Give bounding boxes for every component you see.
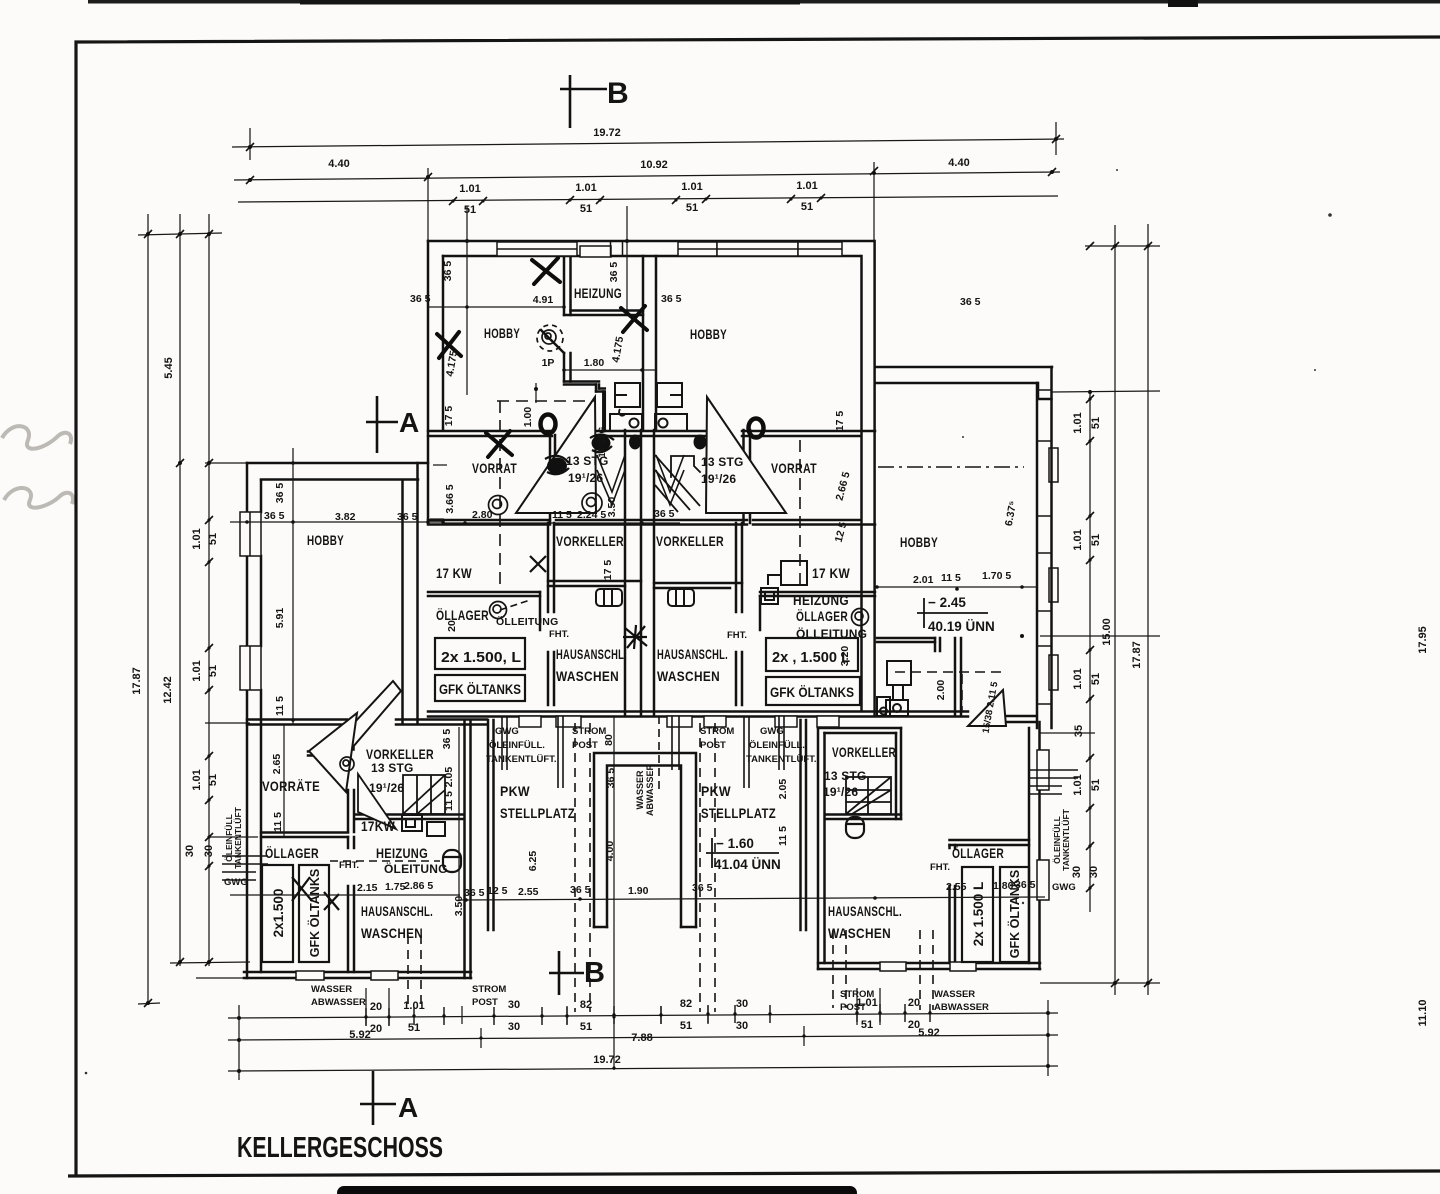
svg-text:2.86 5: 2.86 5 xyxy=(404,880,433,892)
svg-text:36 5: 36 5 xyxy=(264,510,285,522)
HOBBY left bottom step walls xyxy=(564,353,571,382)
svg-text:VORRAT: VORRAT xyxy=(472,460,517,476)
dashed boundary above VORRAT left xyxy=(497,400,595,402)
svg-text:WASSER: WASSER xyxy=(934,989,975,1000)
svg-text:HOBBY: HOBBY xyxy=(484,325,520,341)
svg-text:STROM: STROM xyxy=(700,726,734,737)
svg-text:51: 51 xyxy=(464,204,476,216)
VORKELLER top walls y520/524.5 xyxy=(428,519,860,522)
section marker A top xyxy=(366,396,398,453)
svg-text:17 KW: 17 KW xyxy=(812,565,850,581)
left margin service lines xyxy=(222,856,268,880)
party wall verticals xyxy=(624,430,627,716)
right stair winder step xyxy=(671,456,700,477)
vertical dim x467 xyxy=(466,206,468,395)
svg-text:51: 51 xyxy=(1090,417,1102,429)
svg-text:36 5: 36 5 xyxy=(397,511,418,523)
top dimension line 4.40/10.92/4.40 xyxy=(234,172,1060,180)
svg-text:36 5: 36 5 xyxy=(692,882,713,894)
svg-text:ÖLLAGER: ÖLLAGER xyxy=(952,845,1004,861)
VORKELLER bottom walls y581/586 xyxy=(548,581,742,583)
svg-text:51: 51 xyxy=(1090,534,1102,546)
bottom-right vertical tank boxes xyxy=(962,867,1029,962)
svg-text:12 5: 12 5 xyxy=(487,885,508,897)
bl vertical dim x459 xyxy=(458,727,460,900)
svg-text:GWG: GWG xyxy=(760,726,784,737)
top dim labels xyxy=(328,127,969,216)
svg-text:13 STG: 13 STG xyxy=(597,426,607,457)
top wall xyxy=(875,366,1052,369)
svg-text:30: 30 xyxy=(736,1020,748,1032)
right unit heater 17KW xyxy=(761,561,807,604)
svg-text:30: 30 xyxy=(203,845,215,857)
vertical dim x536 xyxy=(535,383,537,403)
svg-text:3.66 5: 3.66 5 xyxy=(444,484,456,513)
left dim ticks xyxy=(144,230,213,1007)
svg-text:36 5: 36 5 xyxy=(274,483,286,504)
svg-text:VORKELLER: VORKELLER xyxy=(556,533,624,549)
top wall windows xyxy=(497,242,842,257)
svg-text:51: 51 xyxy=(861,1019,873,1031)
bl dim line y893 xyxy=(230,894,460,896)
svg-text:ÖLEINFÜLL.: ÖLEINFÜLL. xyxy=(749,740,805,751)
svg-text:5.92: 5.92 xyxy=(349,1029,370,1041)
svg-text:TANKENTLÜFT: TANKENTLÜFT xyxy=(1061,808,1071,870)
svg-text:WASCHEN: WASCHEN xyxy=(361,925,423,941)
svg-text:TANKENTLÜFT.: TANKENTLÜFT. xyxy=(486,754,557,765)
svg-text:POST: POST xyxy=(840,1002,866,1013)
svg-text:ÖLEITUNG: ÖLEITUNG xyxy=(384,861,448,876)
svg-text:1.01: 1.01 xyxy=(1072,412,1084,433)
section marker B top xyxy=(560,75,607,128)
svg-text:51: 51 xyxy=(207,665,219,677)
stair jambs left unit xyxy=(550,435,555,523)
HOBBY far-right stair wedge xyxy=(0,0,1135,1)
top dim ticks xyxy=(246,135,1060,205)
svg-text:HAUSANSCHL.: HAUSANSCHL. xyxy=(828,903,902,919)
svg-text:20: 20 xyxy=(446,620,458,632)
svg-text:20: 20 xyxy=(370,1001,382,1013)
far-right top corner return xyxy=(1038,383,1052,399)
svg-text:36 5: 36 5 xyxy=(608,262,620,283)
extension lines from plan to left dims xyxy=(205,462,250,464)
thick O ring right xyxy=(749,419,764,438)
svg-text:HOBBY: HOBBY xyxy=(307,532,344,548)
svg-text:11 5: 11 5 xyxy=(552,509,572,521)
right unit sink block xyxy=(655,383,687,431)
VORRAETE right wall lower xyxy=(348,790,354,832)
right VORKELLER corner stairs xyxy=(655,455,700,512)
svg-text:2.80: 2.80 xyxy=(472,509,493,521)
svg-text:51: 51 xyxy=(801,201,813,213)
svg-text:17 5: 17 5 xyxy=(443,406,455,427)
svg-text:POST: POST xyxy=(700,740,726,751)
svg-text:1.01: 1.01 xyxy=(796,180,817,192)
svg-text:36 5: 36 5 xyxy=(570,884,591,896)
vertical dim x293 far-left xyxy=(292,448,294,725)
svg-text:ÖLEINFÜLL.: ÖLEINFÜLL. xyxy=(489,740,545,751)
svg-text:36 5: 36 5 xyxy=(464,887,485,899)
svg-text:WASSER: WASSER xyxy=(311,984,352,995)
dashed nook far-right xyxy=(895,671,1005,673)
svg-text:13 STG: 13 STG xyxy=(701,455,744,469)
svg-text:5.91: 5.91 xyxy=(274,608,286,629)
right wall of far-left hobby xyxy=(403,463,418,724)
left unit stair chevrons xyxy=(597,455,684,505)
svg-text:HAUSANSCHL.: HAUSANSCHL. xyxy=(361,903,433,919)
svg-text:15.00: 15.00 xyxy=(1101,618,1113,646)
svg-text:ÖLLEITUNG: ÖLLEITUNG xyxy=(496,615,558,628)
svg-text:20: 20 xyxy=(370,1023,382,1035)
svg-text:5.45: 5.45 xyxy=(163,357,175,378)
svg-text:HEIZUNG: HEIZUNG xyxy=(574,285,622,301)
bl block boiler rounded xyxy=(443,850,461,872)
svg-text:KELLERGESCHOSS: KELLERGESCHOSS xyxy=(237,1132,443,1164)
ollager right-central walls xyxy=(760,592,875,596)
VORKELLER radiators xyxy=(596,589,694,606)
construction X marks xyxy=(437,258,647,457)
svg-text:GWG: GWG xyxy=(1052,882,1076,893)
VORKELLER-bl door jamb xyxy=(347,727,354,750)
svg-text:40.19 ÜNN: 40.19 ÜNN xyxy=(928,619,995,634)
svg-text:STROM: STROM xyxy=(472,984,506,995)
far-left block bottom wall xyxy=(244,971,471,974)
svg-text:17.87: 17.87 xyxy=(131,667,143,695)
svg-text:1.01: 1.01 xyxy=(1072,529,1084,550)
far-right wall window dividers xyxy=(1037,390,1058,704)
svg-text:51: 51 xyxy=(1090,673,1102,685)
svg-text:1.01: 1.01 xyxy=(575,182,596,194)
svg-text:1P: 1P xyxy=(542,357,555,369)
service riser short lines under central wall xyxy=(222,716,1078,880)
svg-text:1.90: 1.90 xyxy=(628,885,649,897)
PKW stellplatz retaining walls xyxy=(488,720,806,930)
svg-text:19.72: 19.72 xyxy=(593,1054,621,1066)
svg-text:B: B xyxy=(584,957,605,989)
svg-text:GFK ÖLTANKS: GFK ÖLTANKS xyxy=(439,682,521,697)
left vertical dimension lines xyxy=(138,214,258,1005)
svg-text:POST: POST xyxy=(472,997,498,1008)
svg-text:51: 51 xyxy=(680,1020,692,1032)
svg-text:2.24 5: 2.24 5 xyxy=(577,509,606,521)
svg-text:3.82: 3.82 xyxy=(335,511,356,523)
svg-text:17KW: 17KW xyxy=(361,818,395,834)
svg-text:FHT.: FHT. xyxy=(727,630,747,641)
svg-text:6.37⁵: 6.37⁵ xyxy=(1003,500,1019,527)
2.01 dim far-right xyxy=(877,586,1037,588)
svg-text:51: 51 xyxy=(207,533,219,545)
svg-text:30: 30 xyxy=(184,845,196,857)
central block top wall inner xyxy=(443,255,860,258)
svg-text:11 5: 11 5 xyxy=(274,696,286,716)
pkw dim line y900 xyxy=(460,897,1045,900)
bottom-left second flight triangle xyxy=(358,774,396,829)
far-left block xyxy=(244,463,487,978)
scribble over bl tanks xyxy=(292,877,339,910)
svg-text:11 5: 11 5 xyxy=(941,572,961,584)
HAUSANSCHL-bl left wall xyxy=(348,837,354,972)
svg-text:35: 35 xyxy=(1073,725,1085,737)
svg-text:GFK ÖLTANKS: GFK ÖLTANKS xyxy=(770,685,854,700)
outer walls xyxy=(246,463,249,978)
faint right margin numbers xyxy=(1417,626,1429,1026)
svg-text:36 5: 36 5 xyxy=(654,508,675,520)
svg-text:ÖLLEITUNG: ÖLLEITUNG xyxy=(796,626,867,641)
far-left wall windows xyxy=(240,512,398,980)
svg-text:HEIZUNG: HEIZUNG xyxy=(793,592,849,608)
svg-text:51: 51 xyxy=(1090,779,1102,791)
svg-text:HAUSANSCHL.: HAUSANSCHL. xyxy=(657,646,728,662)
svg-text:17 KW: 17 KW xyxy=(436,565,472,581)
svg-text:A: A xyxy=(399,407,419,438)
svg-text:11 5: 11 5 xyxy=(443,791,455,811)
bottom-left block stair plan xyxy=(403,775,445,814)
interior: washing nook xyxy=(877,638,935,642)
svg-text:36 5: 36 5 xyxy=(960,296,981,308)
svg-text:HEIZUNG: HEIZUNG xyxy=(376,845,428,861)
left unit sink block xyxy=(610,383,642,431)
svg-text:− 2.45: − 2.45 xyxy=(928,595,966,610)
svg-text:3.50: 3.50 xyxy=(606,497,618,518)
svg-text:GFK ÖLTANKS: GFK ÖLTANKS xyxy=(307,869,322,957)
right unit washing machine xyxy=(886,661,911,716)
svg-text:11.10: 11.10 xyxy=(1417,1000,1429,1027)
left-central tank boxes xyxy=(435,638,525,701)
svg-text:20: 20 xyxy=(908,997,920,1009)
svg-text:ÖLLAGER: ÖLLAGER xyxy=(436,607,489,623)
speckles xyxy=(85,169,1332,1074)
HEIZUNG room walls xyxy=(564,257,571,315)
svg-text:11 5: 11 5 xyxy=(272,812,284,832)
svg-text:STELLPLATZ: STELLPLATZ xyxy=(500,805,575,821)
svg-text:4.175: 4.175 xyxy=(444,349,460,377)
svg-text:HOBBY: HOBBY xyxy=(900,534,938,550)
bottom-left stair arrow xyxy=(341,681,401,748)
svg-text:GWG: GWG xyxy=(224,877,248,888)
svg-text:HOBBY: HOBBY xyxy=(690,326,727,342)
top dimension line 1.01/51 row xyxy=(238,196,1058,202)
left dim labels (rotated) xyxy=(131,357,219,857)
svg-text:TANKENTLÜFT: TANKENTLÜFT xyxy=(233,806,243,868)
svg-text:2x1.500: 2x1.500 xyxy=(271,889,286,938)
svg-text:WASSER: WASSER xyxy=(635,770,645,810)
svg-text:ABWASSER: ABWASSER xyxy=(934,1002,989,1013)
bottom rounded black bar xyxy=(337,1186,857,1194)
svg-text:VORKELLER: VORKELLER xyxy=(832,744,896,760)
svg-text:7.88: 7.88 xyxy=(631,1032,652,1044)
strom post dashed verticals xyxy=(574,723,576,1012)
svg-text:ÖLLAGER: ÖLLAGER xyxy=(265,845,319,861)
svg-text:1.70 5: 1.70 5 xyxy=(982,570,1011,582)
svg-text:36 5: 36 5 xyxy=(605,768,617,789)
vertical dim x627 xyxy=(626,206,628,310)
svg-text:1.01: 1.01 xyxy=(459,183,480,195)
svg-text:1.01: 1.01 xyxy=(191,528,203,549)
svg-text:13 STG: 13 STG xyxy=(824,769,867,783)
central block HAUSANSCHL side walls xyxy=(548,523,554,705)
svg-text:51: 51 xyxy=(580,203,592,215)
svg-text:STELLPLATZ: STELLPLATZ xyxy=(701,805,776,821)
far-right block bottom xyxy=(1006,716,1035,722)
ollager left-central walls xyxy=(428,592,540,596)
svg-text:ABWASSER: ABWASSER xyxy=(645,764,655,817)
vertical dim x284 xyxy=(283,725,285,837)
dash-dot overhang far-right xyxy=(878,466,1024,468)
svg-text:1.01: 1.01 xyxy=(191,660,203,681)
svg-text:1.01: 1.01 xyxy=(191,769,203,790)
svg-text:36 5: 36 5 xyxy=(441,729,453,750)
svg-text:12.42: 12.42 xyxy=(162,676,174,704)
svg-text:36 5: 36 5 xyxy=(1015,879,1036,891)
svg-text:82: 82 xyxy=(680,998,692,1010)
svg-text:2x 1.500, L: 2x 1.500, L xyxy=(441,649,521,666)
svg-text:TANKENTLÜFT.: TANKENTLÜFT. xyxy=(746,754,817,765)
left unit big stair arrow xyxy=(516,397,596,513)
3.82 dim left xyxy=(230,521,443,523)
ink blobs xyxy=(547,435,707,475)
central block bottom wall xyxy=(428,710,968,713)
bottom-right block stair plan xyxy=(846,777,891,814)
right-central tank boxes xyxy=(766,638,860,705)
interior dimension thin lines xyxy=(230,206,1045,900)
1.80 dim xyxy=(564,369,656,371)
right margin service lines xyxy=(1029,770,1078,794)
svg-text:4.40: 4.40 xyxy=(948,157,969,169)
svg-text:2.66 5: 2.66 5 xyxy=(834,470,853,501)
svg-text:WASCHEN: WASCHEN xyxy=(556,668,619,684)
svg-text:1.80: 1.80 xyxy=(993,880,1014,892)
svg-text:80: 80 xyxy=(603,734,615,746)
svg-text:3.20: 3.20 xyxy=(839,646,851,667)
svg-text:A: A xyxy=(398,1092,418,1123)
svg-text:2.01: 2.01 xyxy=(913,574,934,586)
svg-text:30: 30 xyxy=(1071,866,1083,878)
svg-text:FHT.: FHT. xyxy=(930,862,950,873)
top page edge line xyxy=(88,0,1440,4)
svg-text:ÖLLAGER: ÖLLAGER xyxy=(796,608,848,624)
VORRATE/OLLAGER divider xyxy=(261,833,348,838)
svg-text:VORKELLER: VORKELLER xyxy=(656,533,724,549)
thin spirals xyxy=(340,325,869,771)
svg-text:1.75: 1.75 xyxy=(385,881,406,893)
br wasser dashed xyxy=(919,930,921,1010)
central block right wall xyxy=(873,241,876,716)
br block boiler rounded xyxy=(846,817,864,838)
svg-text:51: 51 xyxy=(207,774,219,786)
svg-text:VORRAT: VORRAT xyxy=(771,460,817,476)
svg-text:VORRÄTE: VORRÄTE xyxy=(262,778,320,794)
svg-text:51: 51 xyxy=(686,202,698,214)
svg-text:2.05: 2.05 xyxy=(777,779,789,800)
oil line central-left xyxy=(500,600,530,610)
center U strip xyxy=(594,753,696,927)
svg-text:19.72: 19.72 xyxy=(593,127,621,139)
right wall of lower-left block xyxy=(465,720,471,978)
svg-text:STROM: STROM xyxy=(840,989,874,1000)
bottom-right block xyxy=(818,722,1040,969)
svg-text:4.00: 4.00 xyxy=(604,841,616,862)
4.91 dim xyxy=(443,306,564,308)
section marker A bottom xyxy=(360,1071,396,1125)
svg-text:VORKELLER: VORKELLER xyxy=(366,746,434,762)
svg-text:HAUSANSCHL.: HAUSANSCHL. xyxy=(556,646,627,662)
svg-text:19¹/26: 19¹/26 xyxy=(369,781,404,795)
central block top wall outer xyxy=(428,240,874,243)
svg-text:19¹/26: 19¹/26 xyxy=(701,472,736,486)
section marker B bottom xyxy=(549,951,584,995)
faint mirrored handwriting left margin xyxy=(2,426,73,508)
central block left wall xyxy=(427,241,430,523)
svg-text:1.01: 1.01 xyxy=(681,181,702,193)
svg-text:4.175: 4.175 xyxy=(610,335,626,363)
stair jambs right unit xyxy=(744,430,751,480)
svg-text:1.01: 1.01 xyxy=(1072,668,1084,689)
svg-text:B: B xyxy=(607,77,629,110)
svg-text:2.65: 2.65 xyxy=(271,754,283,775)
svg-text:10.92: 10.92 xyxy=(640,159,668,171)
top dimension line 19.72 xyxy=(232,139,1064,147)
svg-text:2.55: 2.55 xyxy=(518,886,539,898)
svg-text:− 1.60: − 1.60 xyxy=(716,836,754,851)
svg-text:13 STG: 13 STG xyxy=(371,761,414,775)
right vertical dimension lines xyxy=(1040,224,1160,995)
left bay left wall xyxy=(488,720,494,930)
bottom dimension lines xyxy=(228,716,1058,1080)
small service labels xyxy=(224,629,1076,1013)
svg-text:GWG: GWG xyxy=(495,726,519,737)
svg-text:17 5: 17 5 xyxy=(834,411,846,432)
svg-text:FHT.: FHT. xyxy=(339,860,359,871)
svg-text:PKW: PKW xyxy=(500,783,530,799)
svg-text:17.87: 17.87 xyxy=(1131,641,1143,669)
svg-text:30: 30 xyxy=(736,998,748,1010)
svg-text:17 5: 17 5 xyxy=(602,560,614,581)
3.66 dim left edge verticals xyxy=(433,464,447,466)
bottom of far-left hobby xyxy=(247,718,487,721)
svg-text:2.05: 2.05 xyxy=(443,767,455,788)
OLLAGER-br divider xyxy=(950,845,956,963)
svg-text:11 5: 11 5 xyxy=(777,826,789,846)
svg-text:2.00: 2.00 xyxy=(935,680,947,701)
light wells below central block bottom wall xyxy=(519,716,839,727)
svg-text:WASCHEN: WASCHEN xyxy=(657,668,720,684)
svg-text:19¹/26: 19¹/26 xyxy=(823,785,858,799)
svg-text:PKW: PKW xyxy=(701,783,731,799)
right bay right wall xyxy=(801,720,807,930)
svg-text:POST: POST xyxy=(572,740,598,751)
svg-text:30: 30 xyxy=(508,1021,520,1033)
svg-text:FHT.: FHT. xyxy=(549,629,569,640)
VORKELLER dim line y523 xyxy=(443,522,680,524)
svg-text:2.55: 2.55 xyxy=(946,881,967,893)
svg-text:36 5: 36 5 xyxy=(661,293,682,305)
VORRAETE top short wall xyxy=(308,752,347,756)
svg-text:36 5: 36 5 xyxy=(442,261,454,282)
br strom dashed xyxy=(832,930,834,1008)
oil line bl xyxy=(330,860,440,862)
bl wasser dashed xyxy=(407,935,409,1010)
svg-text:4.91: 4.91 xyxy=(533,294,554,306)
right unit dashed xyxy=(799,440,801,585)
svg-text:STROM: STROM xyxy=(572,726,606,737)
svg-text:41.04 ÜNN: 41.04 ÜNN xyxy=(714,857,781,872)
svg-text:1.00: 1.00 xyxy=(522,407,534,428)
svg-text:4.40: 4.40 xyxy=(328,158,349,170)
stairs bottom wall xyxy=(825,815,901,820)
VORRAT top walls y431/436 xyxy=(428,430,875,433)
svg-text:5.92: 5.92 xyxy=(918,1027,939,1039)
svg-text:19¹/26: 19¹/26 xyxy=(568,471,603,485)
